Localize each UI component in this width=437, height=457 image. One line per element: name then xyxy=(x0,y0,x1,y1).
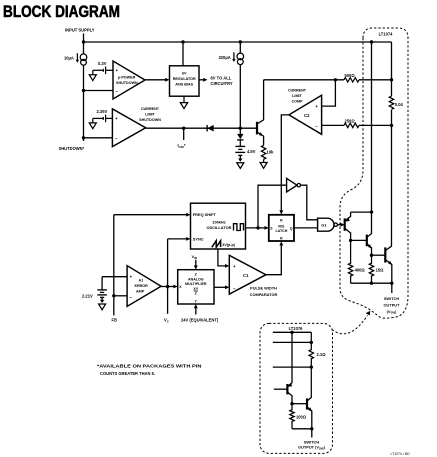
svg-text:SHUTDOWN*: SHUTDOWN* xyxy=(59,146,85,151)
wire oscillator output to latch S xyxy=(246,227,265,229)
svg-text:+: + xyxy=(115,116,118,121)
block 100kHz oscillator xyxy=(191,203,246,249)
ground below 0.3V battery xyxy=(89,70,96,80)
op-amp C-B current limit shutdown comparator xyxy=(112,109,145,147)
svg-text:ERROR: ERROR xyxy=(135,284,149,288)
svg-text:XY: XY xyxy=(193,287,198,291)
current source I2 320uA xyxy=(234,52,244,64)
svg-text:R/S: R/S xyxy=(278,225,285,229)
resistor R 400 xyxy=(348,240,352,283)
svg-text:2.21V: 2.21V xyxy=(82,294,93,299)
node LT1076 line3 junction xyxy=(310,365,313,368)
node bottom rail 15 xyxy=(370,282,373,285)
wire C2 minus input 250ohm row xyxy=(322,124,344,126)
wire LT1076 line3 xyxy=(273,366,312,368)
svg-text:G1: G1 xyxy=(321,223,327,228)
transistor Q2 NPN xyxy=(367,212,372,255)
inverter U2 xyxy=(258,185,287,228)
wire sawtooth to C1 plus xyxy=(218,249,225,266)
svg-text:400Ω: 400Ω xyxy=(355,268,366,273)
wire VIN into multiplier xyxy=(195,260,197,266)
resistor R 100 xyxy=(290,404,294,429)
wire FB vertical xyxy=(113,215,115,316)
node input supply junction xyxy=(82,40,85,43)
transistor Q4 LT1076 PNP xyxy=(287,383,292,404)
svg-text:Q: Q xyxy=(290,226,293,230)
svg-text:AND BIAS: AND BIAS xyxy=(175,82,193,86)
svg-text:PULSE WIDTH: PULSE WIDTH xyxy=(250,286,277,291)
node shutdown rail tap 2 xyxy=(82,136,85,139)
node FB minus tap xyxy=(112,294,115,297)
wire 6V to all circuitry arrow xyxy=(199,79,204,81)
svg-text:AMP: AMP xyxy=(136,290,145,294)
op-amp A1 error amp xyxy=(127,266,161,307)
icon square wave xyxy=(234,224,244,231)
svg-text:LIMIT: LIMIT xyxy=(292,94,302,98)
svg-text:CURRENT: CURRENT xyxy=(141,107,160,111)
boundary LT1076 dashed box xyxy=(260,323,333,453)
diode D1 xyxy=(207,125,214,132)
wire C1 output to latch bottom xyxy=(266,245,281,275)
svg-text:6V: 6V xyxy=(182,71,187,75)
block 6V regulator and bias xyxy=(170,66,200,96)
wire 500ohm to right vertical xyxy=(359,79,392,81)
gate G1 nand xyxy=(318,218,334,231)
wire comparator B output to clamp xyxy=(146,127,257,129)
svg-text:+: + xyxy=(315,104,318,109)
node clamp base junction xyxy=(239,127,242,130)
node 500 right junction xyxy=(390,78,393,81)
svg-text:SYNC: SYNC xyxy=(193,236,204,241)
svg-text:15Ω: 15Ω xyxy=(376,268,385,273)
ground below 2.35V battery xyxy=(89,118,96,128)
svg-text:6V TO ALL: 6V TO ALL xyxy=(211,76,232,81)
wire Q1 collector to Q2 base xyxy=(351,239,367,241)
wire connector dashed arrow to LT1074 xyxy=(332,316,368,334)
svg-text:(VSW): (VSW) xyxy=(387,309,398,315)
svg-text:COMP: COMP xyxy=(291,100,303,104)
svg-text:COMPARATOR: COMPARATOR xyxy=(250,292,278,297)
svg-text:ANALOG: ANALOG xyxy=(188,278,204,282)
wire top supply rail xyxy=(84,41,392,43)
svg-text:COUNTS GREATER THAN 5.: COUNTS GREATER THAN 5. xyxy=(100,371,155,376)
svg-text:OUTPUT: OUTPUT xyxy=(384,303,401,308)
wire comparator A output to 6V regulator xyxy=(145,79,166,81)
wire collector to 500ohm row xyxy=(264,79,344,81)
wire multiplier output to C1 minus xyxy=(214,286,225,288)
wire LT1076 bottom rail xyxy=(292,428,312,430)
node Ilim stub xyxy=(182,127,185,130)
wire inverter output to gate G1 xyxy=(301,185,318,220)
wire emitter bottom rail xyxy=(351,282,392,284)
node LT1076 top junction xyxy=(290,331,293,334)
svg-text:*AVAILABLE ON PACKAGES WITH PI: *AVAILABLE ON PACKAGES WITH PIN xyxy=(97,364,202,369)
ground below 10k xyxy=(260,159,267,168)
diode D2 vertical xyxy=(237,128,243,146)
wire Q2 emitter to Q3 base xyxy=(372,254,386,256)
icon sawtooth 3Vp-p xyxy=(212,241,221,248)
wire latch Q to gate G1 xyxy=(294,227,318,229)
battery 4.5V xyxy=(235,146,245,155)
node shutdown rail tap 1 xyxy=(82,89,85,92)
svg-text:µ-POWER: µ-POWER xyxy=(118,76,136,80)
svg-text:4.5V: 4.5V xyxy=(247,149,256,154)
svg-text:C2: C2 xyxy=(304,113,310,118)
wire right vertical B sense xyxy=(391,42,393,246)
wire comparator B minus input xyxy=(84,137,113,139)
svg-text:0.04: 0.04 xyxy=(395,102,404,107)
node 6V reg junction xyxy=(181,40,184,43)
wire left shutdown rail xyxy=(83,42,85,141)
transistor Q3 NPN output xyxy=(385,246,392,283)
wire 320uA source drop xyxy=(239,42,241,128)
svg-text:500Ω: 500Ω xyxy=(345,73,356,78)
svg-text:LIMIT: LIMIT xyxy=(145,112,155,116)
ground below 2.21V battery xyxy=(99,297,106,309)
wire LT1076 switch output stub xyxy=(311,429,313,438)
svg-text:10k: 10k xyxy=(267,150,275,155)
svg-text:OSCILLATOR: OSCILLATOR xyxy=(207,225,232,230)
svg-text:INPUT SUPPLY: INPUT SUPPLY xyxy=(65,28,95,33)
svg-text:SHUTDOWN: SHUTDOWN xyxy=(139,118,161,122)
node C2 plus tap xyxy=(334,78,337,81)
wire A1 plus input xyxy=(102,276,127,278)
wire LT1076 top rail xyxy=(273,331,312,333)
wire VC vertical xyxy=(167,239,169,314)
svg-text:OUTPUT (VSW): OUTPUT (VSW) xyxy=(298,445,326,451)
wire 24V equivalent into multiplier xyxy=(195,308,197,315)
node Q4 collector junction xyxy=(290,402,293,405)
svg-text:2.35V: 2.35V xyxy=(97,109,108,114)
svg-text:CIRCUITRY: CIRCUITRY xyxy=(211,81,233,86)
op-amp C1 pulse width comparator xyxy=(229,255,266,294)
svg-text:LT1074 • BD: LT1074 • BD xyxy=(391,452,411,456)
svg-text:24V (EQUIVALENT): 24V (EQUIVALENT) xyxy=(181,318,219,323)
wire Q1 emitter to supply node xyxy=(351,211,372,213)
node inverter tap xyxy=(256,226,259,229)
svg-text:CURRENT: CURRENT xyxy=(288,89,307,93)
svg-text:Z: Z xyxy=(195,273,197,277)
boundary LT1074 dashed outline xyxy=(340,28,408,318)
svg-text:LATCH: LATCH xyxy=(275,229,287,233)
svg-text:LT1076: LT1076 xyxy=(289,326,304,331)
transistor Q0 current limit clamp xyxy=(257,80,264,146)
svg-text:VC: VC xyxy=(164,318,170,324)
block analog multiplier xyxy=(178,270,214,304)
node LT1076 output junction xyxy=(310,427,313,430)
svg-text:ILIM*: ILIM* xyxy=(178,143,186,149)
node 250 right junction xyxy=(390,124,393,127)
svg-text:LT1074: LT1074 xyxy=(379,32,394,37)
svg-text:FB: FB xyxy=(112,318,118,323)
wire C2 output to latch R xyxy=(281,115,289,211)
svg-text:Z: Z xyxy=(195,292,197,296)
wire input supply stub xyxy=(83,34,85,43)
node VC junction xyxy=(166,285,169,288)
battery 0.3V xyxy=(93,67,113,75)
resistor R 250 xyxy=(344,123,359,127)
resistor R-10k xyxy=(261,145,265,159)
op-amp C-A u-power shutdown comparator xyxy=(113,61,145,99)
node right rail junction xyxy=(370,40,373,43)
svg-text:3V(p-p): 3V(p-p) xyxy=(222,243,235,247)
resistor R 0.04 sense xyxy=(389,96,393,109)
wire freq shift input from FB xyxy=(114,214,187,216)
resistor R 500 xyxy=(344,78,359,82)
wire 6V regulator feed from rail xyxy=(182,42,184,66)
node bottom rail output xyxy=(390,282,393,285)
node Q2 emitter junction xyxy=(370,254,373,257)
current source I1 10uA xyxy=(77,53,86,65)
ground below 4.5V battery xyxy=(237,155,244,168)
battery 2.35V xyxy=(93,115,113,123)
wire A1 minus input from FB xyxy=(114,295,127,297)
svg-text:0.3V: 0.3V xyxy=(98,61,107,66)
wire 250ohm to right vertical xyxy=(359,124,392,126)
transistor Q1 PNP driver xyxy=(345,212,351,240)
svg-text:A1: A1 xyxy=(139,278,144,282)
svg-text:320µA: 320µA xyxy=(219,55,231,60)
svg-text:BLOCK DIAGRAM: BLOCK DIAGRAM xyxy=(3,3,120,21)
op-amp C2 current limit comp xyxy=(289,95,322,134)
svg-text:C1: C1 xyxy=(243,273,249,278)
wire LT1076 line2 xyxy=(273,341,312,343)
svg-text:100kHz: 100kHz xyxy=(212,220,225,225)
svg-text:REGULATOR: REGULATOR xyxy=(173,77,196,81)
svg-text:250Ω: 250Ω xyxy=(345,119,356,124)
svg-text:100Ω: 100Ω xyxy=(296,414,307,419)
svg-text:+: + xyxy=(130,275,133,280)
wire u-power minus input xyxy=(84,90,114,92)
ground below 6V regulator xyxy=(180,96,187,108)
resistor R 15 xyxy=(369,255,373,283)
svg-text:+: + xyxy=(116,68,119,73)
svg-text:FREQ SHIFT: FREQ SHIFT xyxy=(193,212,217,217)
wire LT1076 left vertical xyxy=(291,332,293,383)
wire sync input from VC xyxy=(168,238,187,240)
svg-text:10µA: 10µA xyxy=(64,56,74,61)
svg-text:SHUTDOWN: SHUTDOWN xyxy=(116,81,138,85)
transistor Q5 LT1076 NPN xyxy=(307,396,312,429)
wire G1 output to Q1 base xyxy=(338,224,342,226)
wire LT1076 right vertical with 2.1 resistor xyxy=(309,332,313,395)
svg-text:SWITCH: SWITCH xyxy=(384,296,400,301)
wire switch output stub xyxy=(391,283,393,293)
wire LT1076 base stub xyxy=(274,388,288,390)
wire A1 output to multiplier X xyxy=(161,286,174,288)
svg-text:VIN: VIN xyxy=(192,254,198,260)
wire C2 plus input xyxy=(322,80,336,106)
svg-text:+: + xyxy=(233,264,236,269)
svg-text:2.1Ω: 2.1Ω xyxy=(317,352,327,357)
node emitter supply junction xyxy=(370,210,373,213)
svg-text:MULTIPLIER: MULTIPLIER xyxy=(185,282,207,286)
block R/S latch xyxy=(269,215,294,241)
wire right vertical A emitter supply xyxy=(371,42,373,212)
node LT1076 line2 junction xyxy=(310,341,313,344)
node 320uA junction xyxy=(239,40,242,43)
wire Q4 collector to Q5 base xyxy=(292,403,307,405)
node Q1 collector junction xyxy=(349,239,352,242)
battery 2.21V reference xyxy=(97,277,107,298)
